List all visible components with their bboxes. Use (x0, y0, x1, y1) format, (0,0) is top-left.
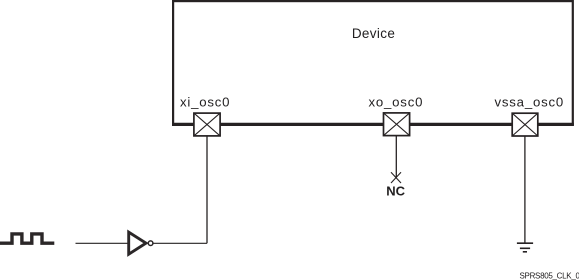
svg-text:Device: Device (352, 26, 395, 41)
svg-text:xo_osc0: xo_osc0 (369, 95, 424, 110)
svg-text:xi_osc0: xi_osc0 (180, 95, 230, 110)
svg-text:SPRS805_CLK_04: SPRS805_CLK_04 (520, 272, 579, 280)
svg-text:NC: NC (386, 183, 405, 198)
svg-text:vssa_osc0: vssa_osc0 (495, 95, 565, 110)
